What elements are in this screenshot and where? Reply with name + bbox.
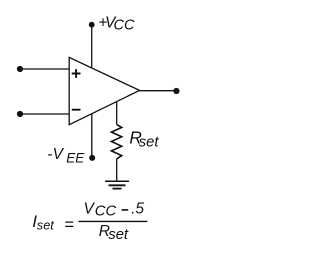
svg-text:+VCC: +VCC xyxy=(98,14,135,33)
svg-text:Iset: Iset xyxy=(32,212,54,232)
wire inverting input xyxy=(20,113,69,115)
op-amp minus input marker xyxy=(72,109,81,111)
svg-text:VCC.5: VCC.5 xyxy=(84,201,145,220)
wire op-amp bottom to resistor xyxy=(116,102,118,125)
formula minus sign xyxy=(122,209,129,211)
op-amp plus input marker xyxy=(72,69,81,78)
svg-text:=: = xyxy=(64,216,74,234)
wire resistor to ground xyxy=(116,159,118,181)
node -VEE terminal dot xyxy=(89,155,95,161)
node noninverting input dot xyxy=(17,66,23,72)
svg-text:Rset: Rset xyxy=(129,128,159,151)
op-amp U1 triangle xyxy=(69,57,139,124)
node inverting input dot xyxy=(17,111,23,117)
svg-text:-VEE: -VEE xyxy=(47,146,85,166)
wire noninverting input xyxy=(20,68,69,70)
wire -VEE from op-amp bottom xyxy=(91,113,93,158)
node +VCC terminal dot xyxy=(89,22,95,28)
formula fraction bar xyxy=(78,220,147,222)
node output dot xyxy=(173,88,179,94)
resistor Rset zigzag xyxy=(111,125,121,159)
wire VCC to op-amp top xyxy=(91,25,93,68)
wire output xyxy=(140,90,177,92)
svg-text:Rset: Rset xyxy=(99,223,129,243)
ground symbol xyxy=(105,181,129,188)
